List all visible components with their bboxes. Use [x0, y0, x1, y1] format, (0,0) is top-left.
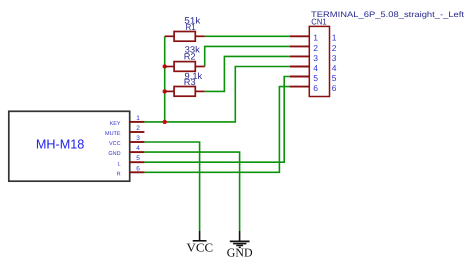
junction at rail and KEY wire: [163, 120, 167, 124]
svg-text:3: 3: [332, 53, 337, 63]
svg-text:R: R: [117, 171, 121, 177]
wire: left vertical rail from R1 left down to KEY junction: [164, 36, 166, 122]
pin 3 of CN1: [290, 53, 337, 63]
svg-text:1: 1: [136, 115, 140, 122]
wire: MH-M18 GND pin to GND power symbol: [144, 152, 239, 231]
pin 4 of CN1: [290, 63, 337, 73]
svg-text:TERMINAL_6P_5.08_straight_-_Le: TERMINAL_6P_5.08_straight_-_Left: [311, 10, 465, 19]
svg-text:MUTE: MUTE: [105, 131, 121, 137]
svg-text:KEY: KEY: [110, 121, 121, 127]
svg-text:3: 3: [136, 135, 140, 142]
svg-text:2: 2: [136, 125, 140, 132]
svg-text:5: 5: [136, 155, 140, 162]
svg-text:GND: GND: [227, 245, 253, 259]
svg-text:MH-M18: MH-M18: [36, 136, 85, 151]
pin 2 MUTE of MH-M18: [105, 125, 144, 137]
power symbol VCC: [193, 231, 207, 241]
power symbol GND: [230, 231, 250, 247]
pin 6 R of MH-M18: [117, 165, 145, 177]
resistor R1: [165, 32, 205, 42]
svg-text:1: 1: [313, 33, 318, 43]
svg-text:R1: R1: [186, 22, 196, 32]
pin 5 of CN1: [290, 73, 337, 83]
svg-text:R3: R3: [184, 77, 196, 87]
wire: R2 right lead up and across to CN1 pin 2: [205, 46, 290, 66]
pin 1 of CN1: [290, 33, 337, 43]
svg-text:6: 6: [313, 83, 318, 93]
svg-text:5: 5: [332, 73, 337, 83]
junction at rail and R3 left lead: [163, 89, 167, 93]
junction at rail and R2 left lead: [163, 64, 167, 68]
wire: MH-M18 L pin up to CN1 pin 5: [144, 77, 289, 163]
svg-text:2: 2: [332, 43, 337, 53]
svg-text:3: 3: [313, 53, 318, 63]
svg-text:VCC: VCC: [187, 241, 214, 255]
pin 2 of CN1: [290, 43, 337, 53]
wire: CN1 pin 4 down and across to MH-M18 KEY pin: [144, 67, 289, 122]
svg-text:4: 4: [332, 63, 337, 73]
connector CN1 body: [309, 26, 329, 96]
pin 3 VCC of MH-M18: [109, 135, 144, 147]
pin 6 of CN1: [290, 83, 337, 93]
resistor R3: [165, 87, 205, 97]
svg-text:1: 1: [332, 33, 337, 43]
wire: MH-M18 R pin up to CN1 pin 6: [144, 87, 289, 173]
svg-text:4: 4: [313, 63, 318, 73]
svg-text:CN1: CN1: [311, 16, 327, 26]
module MH-M18 body: [9, 111, 130, 181]
pin 1 KEY of MH-M18: [110, 115, 145, 127]
svg-text:6: 6: [332, 83, 337, 93]
svg-text:5: 5: [313, 73, 318, 83]
svg-text:GND: GND: [108, 151, 120, 157]
svg-text:4: 4: [136, 145, 140, 152]
wire: R1 right lead to CN1 pin 1: [205, 35, 290, 37]
svg-text:R2: R2: [184, 51, 196, 61]
pin 4 GND of MH-M18: [108, 145, 144, 157]
wire: R3 right lead up and across to CN1 pin 3: [205, 56, 290, 91]
svg-text:2: 2: [313, 43, 318, 53]
resistor R2: [165, 62, 205, 72]
pin 5 L of MH-M18: [118, 155, 145, 167]
svg-text:L: L: [118, 161, 121, 167]
svg-text:VCC: VCC: [109, 141, 121, 147]
wire: MH-M18 VCC pin to VCC power symbol: [144, 142, 199, 231]
svg-text:6: 6: [136, 165, 140, 172]
